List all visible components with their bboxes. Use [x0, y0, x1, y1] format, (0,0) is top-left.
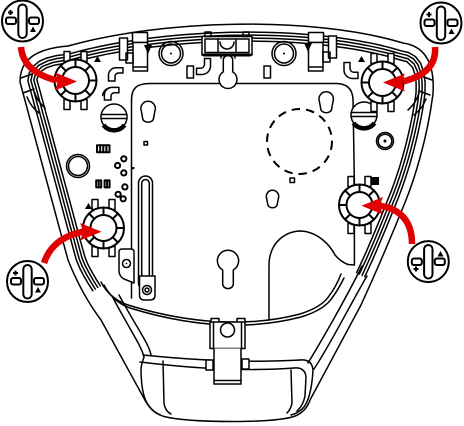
rim line 3 — [31, 35, 422, 289]
rim line 4 — [34, 38, 419, 287]
foot outline right — [291, 360, 313, 415]
marker triangle BL — [85, 203, 92, 209]
red arrow bottom-right — [362, 197, 413, 244]
elbow A left — [109, 68, 124, 81]
socket top-left — [55, 52, 97, 110]
left screw dome — [101, 104, 127, 130]
foot inner corner edge left — [163, 361, 171, 414]
pad circles cluster — [121, 156, 126, 161]
keyhole top-left — [141, 101, 155, 122]
small tab rects upper right — [264, 66, 271, 78]
left wing inner edge b — [119, 295, 151, 355]
marker triangle TL — [94, 56, 101, 62]
left plain circle — [67, 155, 90, 178]
elbow B left — [104, 87, 119, 100]
icon top-right — [421, 3, 462, 44]
socket bottom-left — [83, 200, 124, 257]
foot notch right — [242, 359, 249, 369]
right clip — [309, 33, 337, 72]
long slot bar — [139, 176, 153, 290]
elbow C center-right — [344, 63, 358, 79]
icon bottom-right — [408, 241, 449, 282]
icon top-left — [2, 1, 43, 42]
right pcb circle — [272, 42, 296, 66]
mounting plate right edge — [353, 99, 354, 265]
mounting plate left edge — [131, 100, 133, 298]
cable clamp — [210, 319, 245, 385]
foot outline left — [141, 357, 160, 415]
elbow C center-left — [197, 59, 211, 75]
wall hook hole — [219, 52, 237, 89]
red arrow top-left — [21, 47, 77, 91]
keyhole top-right — [319, 92, 333, 113]
rim line 2 — [28, 32, 425, 291]
red arrow top-right — [383, 47, 435, 92]
small tab rects upper left — [187, 66, 194, 78]
corner facet top-left — [21, 74, 45, 113]
left wing inner edge a — [112, 296, 144, 357]
tiny square dot right — [290, 178, 295, 183]
red arrow bottom-left — [44, 223, 102, 263]
dashed circle — [267, 109, 332, 174]
corner facet top-right — [408, 76, 432, 115]
foot inner corner edge right — [287, 370, 292, 413]
speaker hill — [269, 231, 354, 320]
left pcb circle — [159, 42, 183, 66]
right wing inner edge b — [314, 276, 367, 369]
foot notch left — [206, 360, 213, 370]
foot shoulder upper lip — [143, 355, 300, 361]
left clip — [120, 33, 148, 72]
marker square BR — [371, 177, 379, 185]
foot shoulder lower lip — [140, 362, 306, 411]
right screw dome — [351, 102, 377, 128]
tiny square dot left — [144, 142, 148, 146]
right circle with dot — [377, 133, 394, 150]
screw tab left small — [119, 249, 134, 283]
marker triangle TR — [358, 56, 365, 62]
keyhole middle — [266, 190, 278, 208]
plate shelf double curve (plate bottom) — [101, 274, 341, 322]
socket top-right — [362, 54, 404, 112]
right wing inner edge a — [308, 266, 362, 363]
top center block — [202, 32, 252, 55]
icon bottom-left — [7, 261, 48, 302]
rim line 5 — [37, 41, 416, 286]
vent bar 1 — [97, 145, 110, 152]
socket bottom-right — [339, 177, 380, 234]
keyhole bottom big — [217, 250, 238, 288]
vent bar 2 — [96, 180, 109, 187]
screw tab bottom — [140, 276, 156, 300]
mounting plate top edge — [132, 84, 354, 101]
